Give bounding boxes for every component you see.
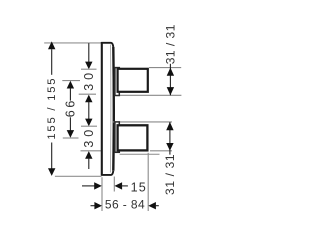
- dimension 30 lower tail: [88, 158, 90, 169]
- tick 30 lower top: [81, 125, 97, 127]
- svg-text:15: 15: [131, 181, 147, 195]
- dimension 30 lower arrow down: [85, 119, 92, 127]
- dimension 15 arrow left-pointing: [115, 182, 123, 189]
- dimension 15 arrow right-pointing: [94, 182, 102, 189]
- extension line bottom (plate bottom): [55, 175, 102, 177]
- tick 66 top (handle1 center): [62, 80, 80, 82]
- plate side view: back edge: [101, 42, 103, 176]
- handle2 base flange: [115, 122, 119, 152]
- tick 66 bottom (handle2 center): [63, 137, 79, 139]
- dimension 155/155 line upper segment: [51, 49, 53, 75]
- dimension 31 top line: [169, 64, 171, 96]
- extension line right y=67.6 (handle1 base top): [149, 67, 181, 69]
- dimension 66 line upper: [69, 88, 71, 101]
- dimension 155/155 arrow up: [48, 41, 55, 49]
- dimension 31 bottom line: [169, 122, 171, 155]
- dimension 30 upper arrow up: [85, 95, 92, 103]
- dimension 30 upper arrow down: [85, 62, 92, 70]
- svg-text:56 - 84: 56 - 84: [105, 198, 145, 212]
- dimension 15 right arrow tail: [121, 185, 128, 187]
- svg-text:66: 66: [63, 98, 77, 117]
- dimension 31 bottom arrow down: [166, 143, 173, 151]
- dimension 66 line lower: [69, 117, 71, 131]
- svg-text:30: 30: [82, 69, 96, 91]
- handle1 knob: [118, 69, 148, 92]
- dimension 56-84 arrow right-pointing: [94, 202, 102, 209]
- extension line right y=121.9 (handle2 base top): [113, 121, 172, 123]
- extension line right y=95.3 (handle1 base bottom): [120, 94, 182, 96]
- plate top edge: [101, 43, 113, 47]
- dimension 56-84 arrow left-pointing: [148, 202, 156, 209]
- plate bottom edge: [101, 171, 113, 175]
- dimension 155/155 line lower segment: [51, 143, 53, 169]
- svg-text:31 / 31: 31 / 31: [164, 24, 178, 64]
- extension vline x=148.2: [147, 153, 149, 211]
- plate front silhouette arc: [112, 47, 115, 171]
- dimension 66 arrow up: [67, 81, 74, 89]
- dimension 30 upper: line from top: [88, 43, 90, 62]
- dimension 31 top arrow down: [167, 87, 174, 95]
- dimension 155/155 arrow down: [48, 168, 55, 176]
- tick 30 upper top: [81, 68, 97, 70]
- plate face curvature line: [109, 45, 111, 173]
- dimension 15 left arrow tail: [82, 185, 96, 187]
- dimension 30 lower arrow up: [85, 151, 92, 159]
- extension line right y=150.8 (handle2 bottom): [150, 150, 172, 152]
- svg-text:155 / 155: 155 / 155: [46, 77, 58, 140]
- svg-text:30: 30: [82, 126, 96, 148]
- dimension 56-84 left arrow tail: [91, 205, 97, 207]
- dimension 31 bottom arrow up: [166, 122, 173, 130]
- extension line top (plate top): [44, 42, 101, 44]
- svg-text:31 / 31: 31 / 31: [163, 154, 177, 195]
- extension vline x=102 below plate: [101, 177, 103, 211]
- handle1 base flange: [115, 68, 119, 96]
- dimension 56-84 right arrow tail: [155, 205, 159, 207]
- tick 30 upper bottom: [79, 93, 96, 95]
- dimension 31 top arrow up: [167, 68, 174, 76]
- tick 30 lower bottom (left segment of y150.8 line): [81, 150, 102, 152]
- dimension 66 arrow down: [67, 130, 74, 138]
- short extension y=154.3: [120, 153, 160, 155]
- shared dimension line between 30 dims: [88, 102, 90, 120]
- handle2 knob: [118, 125, 148, 150]
- extension vline x=114.3: [113, 177, 115, 192]
